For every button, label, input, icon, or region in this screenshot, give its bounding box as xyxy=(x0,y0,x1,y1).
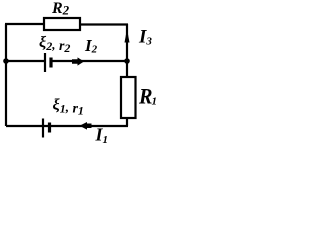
battery cell xi1,r1: long plate (+) xyxy=(42,119,44,138)
resistor R2 xyxy=(44,18,80,30)
wire middle branch left segment xyxy=(6,60,44,62)
junction node right (dot) xyxy=(124,58,130,64)
current arrow I1 (left) xyxy=(80,122,92,130)
junction node left (dot) xyxy=(3,58,9,64)
battery cell xi2,r2: short plate (-) xyxy=(49,58,52,68)
svg-text:1: 1 xyxy=(152,96,158,108)
current arrow I2 (right) xyxy=(72,57,84,65)
svg-text:R2: R2 xyxy=(51,0,70,18)
battery cell xi1,r1: short plate (-) xyxy=(48,123,51,133)
current arrow I3 (up) xyxy=(125,29,130,43)
wire right vertical rail down to R1 xyxy=(126,24,128,77)
wire bottom horizontal rail xyxy=(6,125,128,127)
wire left vertical (node A to node B) xyxy=(5,24,7,126)
svg-text:R: R xyxy=(138,84,152,109)
resistor R1 xyxy=(121,77,136,118)
wire from R1 bottom down to bottom rail xyxy=(126,118,128,126)
battery cell xi2,r2: long plate (+) xyxy=(44,53,46,72)
wire middle branch right segment xyxy=(53,60,128,62)
wire top-right horizontal from R2 to right rail xyxy=(80,23,128,25)
wire top-left horizontal to R2 xyxy=(5,23,44,25)
